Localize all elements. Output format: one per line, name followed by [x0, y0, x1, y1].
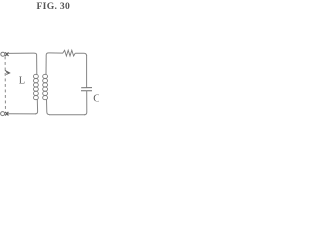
capacitor C top plate: [81, 87, 92, 89]
arrow on dashed line: [5, 70, 10, 74]
terminal T1 (top left): [1, 52, 5, 56]
wire right vertical upper: [86, 55, 88, 87]
svg-text:L: L: [19, 75, 25, 86]
wire right coil bottom lead: [47, 99, 50, 114]
wire left coil top lead: [36, 55, 38, 75]
wire right vertical lower: [84, 91, 87, 115]
capacitor C bottom plate: [81, 90, 92, 92]
junction mark at T2: [5, 112, 8, 116]
wire left coil bottom lead: [35, 99, 38, 114]
wire top-left horizontal: [8, 53, 37, 55]
resistor R (zigzag): [63, 50, 75, 56]
svg-text:FIG. 30: FIG. 30: [37, 1, 71, 12]
junction mark at T1: [5, 52, 8, 56]
wire bottom-right horizontal: [49, 114, 85, 116]
inductor L1 (left/primary coil): [33, 74, 38, 78]
inductor L2 coil: [43, 74, 48, 78]
svg-text:C: C: [93, 94, 99, 105]
inductor L2 (right/secondary coil) top lead: [45, 55, 47, 75]
dashed line between terminals: [4, 57, 6, 111]
wire resistor to top-right corner: [75, 53, 86, 56]
wire bottom-left horizontal: [8, 113, 36, 115]
terminal T2 (bottom left): [1, 112, 5, 116]
